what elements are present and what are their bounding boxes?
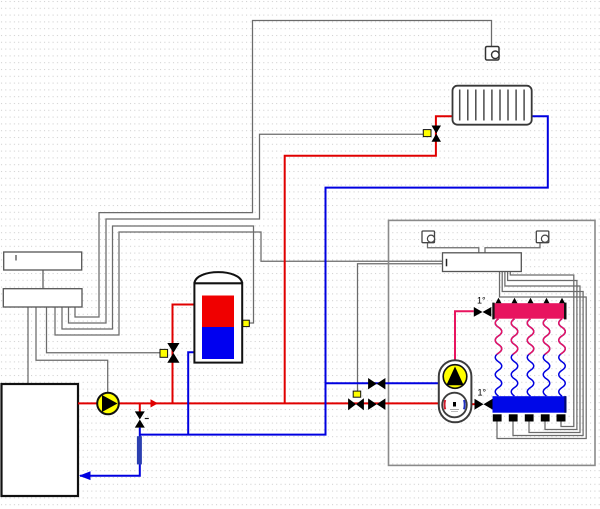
- wire: tank valve actuator wire: [47, 307, 161, 353]
- pipe: blue radiator return: [140, 116, 548, 434]
- actuator of valve V1: [160, 349, 168, 357]
- heating loop waves (blue bottom): [495, 319, 565, 396]
- wire: tank sensor wire: [62, 226, 254, 329]
- floor thermostat A: [422, 231, 435, 243]
- pipe: pink riser to floor manifold: [455, 311, 474, 361]
- wire: floor thermostat B wire: [485, 243, 540, 253]
- floor thermostat B: [536, 231, 549, 243]
- tank cold zone fill: [202, 327, 234, 359]
- zone valve (on red line): [348, 398, 364, 410]
- floor controller box: [443, 253, 522, 272]
- pipe: red tank branch: [173, 305, 203, 404]
- valve V6 (floor supply, 1 deg): [474, 307, 492, 317]
- manifold actuator feet: [493, 414, 566, 421]
- pipe: red radiator branch: [285, 116, 453, 403]
- flow arrows on supply manifold: [496, 298, 566, 304]
- wire: room thermostat wire from controller bundle: [75, 21, 492, 318]
- mixing unit body: [439, 360, 472, 422]
- return manifold (blue): [493, 396, 567, 413]
- supply manifold (pink): [493, 303, 567, 319]
- heating loop waves (pink top): [495, 319, 565, 362]
- radiator: [453, 86, 532, 125]
- arrow: blue into boiler: [79, 471, 91, 480]
- pipe: red bypass stub: [139, 403, 141, 412]
- wire: manifold actuator wire 2: [502, 272, 583, 436]
- wire: manifold actuator wire 4: [508, 272, 577, 430]
- floor heating cabinet box: [389, 220, 596, 465]
- boiler: [2, 384, 79, 496]
- zone valve actuator: [353, 391, 361, 397]
- pipe: blue bypass thick section: [137, 436, 142, 464]
- controller box 1: [4, 252, 82, 270]
- wire: floor controller wire: [55, 232, 443, 335]
- mixing unit pump: [443, 365, 467, 389]
- valve V3 (radiator valve): [432, 126, 442, 142]
- pipe: blue tank return: [188, 352, 202, 434]
- wire: manifold actuator wire 5: [510, 272, 574, 427]
- wire: pump control wire: [36, 307, 108, 393]
- actuator of radiator valve: [423, 130, 431, 137]
- valve V7 (floor return, 1 deg): [475, 399, 493, 410]
- arrow: red flow arrow after pump: [151, 399, 159, 407]
- pipe: red oval to bottom valve: [471, 403, 475, 405]
- pipe: red supply main: [78, 402, 439, 404]
- pump P1 (boiler loop): [97, 393, 119, 415]
- valve V4 (red line): [368, 398, 385, 410]
- mixing unit dial: [442, 393, 467, 418]
- svg-text:1°: 1°: [477, 296, 486, 306]
- tank sensor: [243, 320, 250, 326]
- pipe: blue floor branch: [326, 382, 439, 384]
- valve V1 (tank branch): [167, 343, 179, 363]
- controller box 2: [3, 289, 82, 307]
- wire: radiator valve actuator wire: [69, 134, 424, 323]
- valve V2 (bypass check valve): [135, 411, 145, 427]
- tank body: [194, 283, 242, 362]
- pipe: blue bypass to boiler: [80, 428, 140, 476]
- tank dome: [194, 272, 242, 283]
- room thermostat: [486, 47, 500, 61]
- svg-text:1°: 1°: [478, 388, 487, 398]
- wire: boiler control wire: [27, 307, 29, 384]
- wire: manifold actuator wire 1: [497, 272, 586, 439]
- tank hot zone fill: [202, 296, 234, 328]
- wire: connector between controller boxes: [42, 270, 44, 289]
- wire: manifold actuator wire 3: [505, 272, 580, 433]
- wire: zone valve actuator wire: [358, 264, 443, 391]
- valve V5 (blue line): [368, 378, 385, 389]
- wire: floor thermostat A wire: [428, 243, 479, 253]
